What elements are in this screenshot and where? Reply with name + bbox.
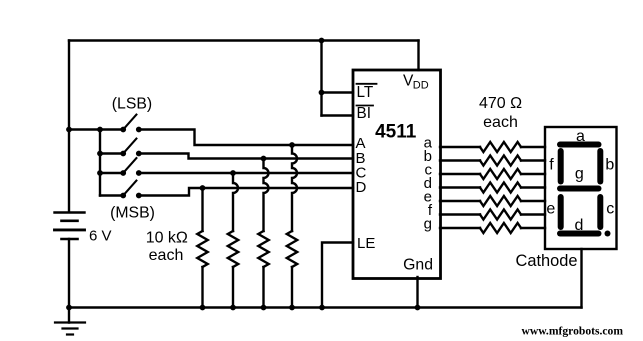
wire: R2 to ground rail: [262, 267, 264, 308]
svg-text:c: c: [606, 201, 614, 218]
svg-text:470 Ω: 470 Ω: [479, 95, 522, 112]
wire: bus to SW2: [100, 152, 123, 154]
wire: drop to LT/BI: [320, 41, 322, 116]
node: top rail junction: [319, 38, 325, 44]
segment a: [560, 142, 599, 148]
svg-text:6 V: 6 V: [89, 228, 112, 245]
svg-text:BI: BI: [357, 105, 371, 122]
svg-text:e: e: [546, 201, 555, 218]
wire: cathode to ground rail: [580, 249, 582, 308]
wire: SW1 to pin A: [139, 130, 353, 146]
wire: bus to SW4: [100, 194, 123, 196]
label: LT pin (with overline): [357, 84, 377, 101]
ground symbol: [55, 323, 85, 335]
resistor Rd 470 ohm: [480, 183, 521, 193]
wire: feed to SW1: [69, 128, 123, 130]
svg-text:(MSB): (MSB): [110, 204, 155, 221]
wire: SW4 to pin D: [139, 188, 353, 196]
display DS1: 7-segment box: [545, 127, 617, 249]
wire: d resistor to display: [521, 186, 545, 188]
svg-text:b: b: [605, 157, 614, 174]
wire: battery negative down to rail: [68, 239, 70, 323]
wire: SW2 to pin B: [139, 154, 353, 159]
op-amp: IC U1 4511 BCD-to-7-segment decoder box: [353, 70, 441, 279]
node: column tap at R2: [261, 156, 267, 162]
wire: VDD drop to IC: [417, 41, 419, 71]
wire: e from IC to resistor: [440, 200, 480, 202]
svg-text:Cathode: Cathode: [516, 252, 578, 270]
svg-text:f: f: [549, 157, 554, 174]
node: battery / rail / ground junction: [66, 305, 72, 311]
svg-text:a: a: [576, 128, 585, 145]
resistor R3 10 k ohm pulldown: [228, 231, 238, 267]
wire: to BI pin: [322, 114, 354, 116]
node: bus tap SW2: [97, 151, 103, 157]
svg-text:10 kΩ: 10 kΩ: [146, 230, 188, 247]
wire: c from IC to resistor: [440, 173, 480, 175]
node: bus tap SW1: [97, 127, 103, 133]
wire: SW3 to pin C: [139, 172, 353, 174]
wire: f resistor to display: [521, 213, 545, 215]
svg-text:LE: LE: [357, 235, 375, 252]
wire: R4 to ground rail: [201, 267, 203, 308]
svg-text:each: each: [483, 114, 518, 131]
node: R4 rail junction: [200, 305, 206, 311]
wire: g resistor to display: [521, 227, 545, 229]
svg-text:g: g: [575, 166, 584, 183]
wire: bottom ground rail: [69, 306, 582, 308]
svg-text:d: d: [575, 217, 584, 234]
wire: column down with hops (R2): [264, 159, 269, 232]
resistor R4 10 k ohm pulldown: [197, 231, 207, 267]
wire: bus to SW3: [100, 172, 123, 174]
wire: f from IC to resistor: [440, 213, 480, 215]
segment b: [597, 151, 603, 182]
segment c: [597, 197, 603, 227]
wire: b resistor to display: [521, 159, 545, 161]
node: column tap at R4: [200, 185, 206, 191]
resistor Ra 470 ohm: [480, 142, 521, 152]
svg-text:each: each: [149, 247, 184, 264]
node: LE rail junction: [319, 305, 325, 311]
resistor Re 470 ohm: [480, 196, 521, 206]
wire: LE pin to ground rail: [322, 243, 353, 308]
node: column tap at R3: [230, 170, 236, 176]
node: Gnd rail junction: [415, 305, 421, 311]
segment e: [558, 197, 564, 227]
wire: column down with hops (R3): [233, 173, 238, 231]
node: column tap at R1: [289, 142, 295, 148]
wire: d from IC to resistor: [440, 186, 480, 188]
wire: e resistor to display: [521, 200, 545, 202]
svg-text:LT: LT: [357, 84, 374, 101]
wire: column down with hops (R1): [292, 145, 297, 231]
segment g: [560, 186, 599, 192]
wire: a resistor to display: [521, 146, 545, 148]
node: bus tap SW3: [97, 170, 103, 176]
node: switch feed tap: [66, 127, 72, 133]
wire: top supply rail: [69, 39, 419, 41]
wire: to LT pin: [322, 91, 354, 93]
wire: switch bus vertical: [99, 130, 101, 196]
resistor Rc 470 ohm: [480, 169, 521, 179]
wire: left vertical from top rail to battery: [68, 41, 70, 212]
resistor Rf 470 ohm: [480, 210, 521, 220]
svg-text:(LSB): (LSB): [112, 96, 152, 113]
wire: R3 to ground rail: [232, 267, 234, 308]
segment f: [558, 151, 564, 182]
wire: b from IC to resistor: [440, 159, 480, 161]
node: R3 rail junction: [230, 305, 236, 311]
wire: g from IC to resistor: [440, 227, 480, 229]
switch SW4 (MSB): [120, 181, 141, 199]
resistor R2 10 k ohm pulldown: [258, 231, 268, 267]
decimal point: [605, 231, 611, 237]
wire: c resistor to display: [521, 173, 545, 175]
battery B1 6 V: [55, 213, 85, 240]
label: BI pin (with overline): [357, 105, 374, 122]
label: VDD pin: [403, 73, 429, 92]
wire: R1 to ground rail: [291, 267, 293, 308]
switch SW3: [120, 158, 141, 176]
switch SW1 (LSB): [120, 115, 141, 133]
svg-text:DD: DD: [413, 80, 429, 92]
svg-text:g: g: [424, 216, 432, 233]
resistor Rb 470 ohm: [480, 156, 521, 166]
switch SW2: [120, 139, 141, 157]
segment d: [560, 231, 599, 237]
wire: IC Gnd to rail: [416, 277, 418, 308]
wire: a from IC to resistor: [440, 146, 480, 148]
resistor R1 10 k ohm pulldown: [287, 231, 297, 267]
node: R2 rail junction: [261, 305, 267, 311]
svg-text:D: D: [356, 179, 367, 196]
node: LT tap: [319, 90, 325, 96]
svg-text:Gnd: Gnd: [403, 256, 433, 273]
node: R1 rail junction: [289, 305, 295, 311]
svg-text:www.mfgrobots.com: www.mfgrobots.com: [521, 324, 623, 337]
svg-text:4511: 4511: [375, 122, 417, 143]
resistor Rg 470 ohm: [480, 223, 521, 233]
wire: column down with hops (R4): [201, 188, 203, 231]
